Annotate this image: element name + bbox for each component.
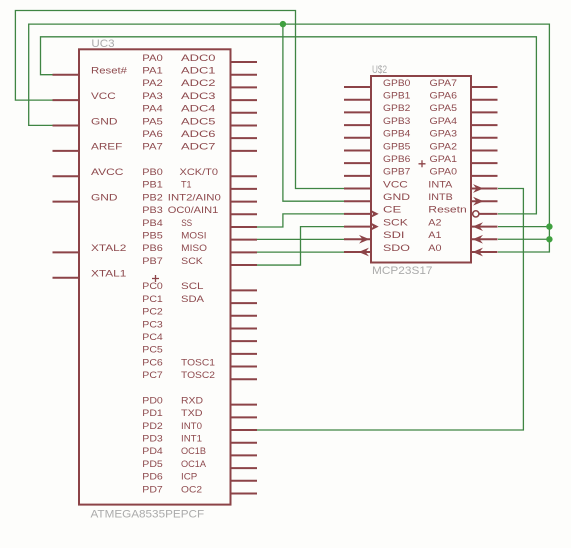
- svg-text:PD2: PD2: [142, 421, 163, 432]
- svg-text:INTB: INTB: [428, 192, 453, 203]
- svg-text:VCC: VCC: [383, 179, 408, 190]
- svg-text:SCK: SCK: [383, 217, 409, 228]
- svg-text:INT0: INT0: [181, 421, 202, 432]
- svg-text:GPA5: GPA5: [430, 103, 458, 114]
- svg-text:PA5: PA5: [142, 116, 163, 127]
- svg-text:PD7: PD7: [142, 484, 163, 495]
- svg-text:XTAL2: XTAL2: [91, 243, 126, 254]
- svg-text:GPB1: GPB1: [383, 90, 410, 101]
- svg-text:GPB6: GPB6: [383, 154, 410, 165]
- svg-text:PB4: PB4: [142, 218, 163, 229]
- svg-text:GPB3: GPB3: [383, 116, 410, 127]
- svg-text:GPA7: GPA7: [430, 78, 458, 89]
- svg-text:SDO: SDO: [383, 243, 410, 254]
- svg-text:PC3: PC3: [142, 319, 163, 330]
- svg-text:PC1: PC1: [142, 294, 163, 305]
- svg-text:AREF: AREF: [91, 142, 122, 153]
- svg-text:GPB4: GPB4: [383, 129, 411, 140]
- svg-text:PD3: PD3: [142, 434, 163, 445]
- svg-text:PC0: PC0: [142, 281, 163, 292]
- svg-text:PB3: PB3: [142, 205, 163, 216]
- svg-text:TXD: TXD: [181, 408, 203, 419]
- svg-text:GND: GND: [383, 192, 410, 203]
- svg-text:A0: A0: [428, 243, 441, 254]
- svg-text:PA2: PA2: [142, 78, 163, 89]
- svg-text:INT1: INT1: [181, 434, 202, 445]
- svg-text:TOSC1: TOSC1: [181, 357, 215, 368]
- svg-text:VCC: VCC: [91, 91, 116, 102]
- svg-text:T1: T1: [181, 180, 192, 191]
- svg-text:PB6: PB6: [142, 243, 163, 254]
- svg-text:RXD: RXD: [181, 395, 203, 406]
- svg-text:ICP: ICP: [181, 472, 197, 483]
- svg-text:PD1: PD1: [142, 408, 163, 419]
- svg-text:GPA0: GPA0: [430, 167, 458, 178]
- svg-text:OC1B: OC1B: [181, 446, 206, 457]
- svg-text:TOSC2: TOSC2: [181, 370, 215, 381]
- svg-text:ADC3: ADC3: [181, 91, 216, 102]
- svg-text:PA3: PA3: [142, 91, 163, 102]
- svg-text:MOSI: MOSI: [181, 230, 206, 241]
- svg-text:GPA6: GPA6: [430, 90, 458, 101]
- svg-text:ADC7: ADC7: [181, 142, 216, 153]
- svg-text:ADC6: ADC6: [181, 129, 216, 140]
- svg-text:PC5: PC5: [142, 345, 163, 356]
- svg-text:PB2: PB2: [142, 192, 163, 203]
- svg-text:CE: CE: [383, 205, 401, 216]
- svg-text:ATMEGA8535PEPCF: ATMEGA8535PEPCF: [91, 508, 205, 520]
- svg-text:GPA3: GPA3: [430, 129, 458, 140]
- svg-text:PB0: PB0: [142, 167, 163, 178]
- svg-text:PB7: PB7: [142, 256, 163, 267]
- svg-text:PC7: PC7: [142, 370, 163, 381]
- svg-text:ADC2: ADC2: [181, 78, 216, 89]
- svg-text:ADC5: ADC5: [181, 116, 216, 127]
- svg-text:GPB7: GPB7: [383, 167, 410, 178]
- svg-text:U$2: U$2: [372, 64, 387, 76]
- svg-text:ADC4: ADC4: [181, 104, 216, 115]
- svg-text:OC0/AIN1: OC0/AIN1: [168, 205, 219, 216]
- svg-text:MCP23S17: MCP23S17: [372, 265, 433, 277]
- svg-text:GPB2: GPB2: [383, 103, 410, 114]
- svg-text:PA1: PA1: [142, 65, 163, 76]
- svg-text:UC3: UC3: [91, 38, 114, 50]
- svg-text:ADC0: ADC0: [181, 53, 216, 64]
- svg-text:SDI: SDI: [383, 230, 405, 241]
- svg-text:PC2: PC2: [142, 307, 163, 318]
- svg-text:XCK/T0: XCK/T0: [180, 167, 219, 178]
- svg-text:ADC1: ADC1: [181, 65, 216, 76]
- svg-text:PC6: PC6: [142, 357, 163, 368]
- svg-text:GND: GND: [91, 192, 118, 203]
- svg-text:PB5: PB5: [142, 230, 163, 241]
- svg-text:PD6: PD6: [142, 472, 163, 483]
- svg-text:OC2: OC2: [181, 484, 202, 495]
- svg-text:Resetn: Resetn: [428, 205, 467, 216]
- svg-text:INT2/AIN0: INT2/AIN0: [168, 192, 221, 203]
- svg-text:PA0: PA0: [142, 53, 163, 64]
- svg-text:GPB5: GPB5: [383, 141, 410, 152]
- svg-text:PA7: PA7: [142, 142, 163, 153]
- svg-text:A1: A1: [428, 230, 441, 241]
- svg-text:GPB0: GPB0: [383, 78, 410, 89]
- svg-text:AVCC: AVCC: [91, 167, 124, 178]
- svg-text:A2: A2: [428, 217, 441, 228]
- svg-text:SS: SS: [181, 218, 192, 229]
- svg-text:SCL: SCL: [181, 281, 204, 292]
- svg-text:PD0: PD0: [142, 395, 163, 406]
- svg-text:SDA: SDA: [181, 294, 205, 305]
- svg-text:OC1A: OC1A: [181, 459, 207, 470]
- svg-text:PD4: PD4: [142, 446, 163, 457]
- svg-text:Reset#: Reset#: [91, 65, 128, 76]
- svg-text:GPA1: GPA1: [430, 154, 458, 165]
- svg-text:GPA4: GPA4: [430, 116, 458, 127]
- svg-text:INTA: INTA: [428, 179, 453, 190]
- svg-text:PD5: PD5: [142, 459, 163, 470]
- svg-text:PA4: PA4: [142, 104, 163, 115]
- svg-text:PA6: PA6: [142, 129, 163, 140]
- svg-text:GND: GND: [91, 116, 118, 127]
- svg-text:XTAL1: XTAL1: [91, 269, 126, 280]
- svg-text:SCK: SCK: [181, 256, 203, 267]
- svg-text:MISO: MISO: [181, 243, 207, 254]
- svg-text:PB1: PB1: [142, 180, 163, 191]
- svg-text:GPA2: GPA2: [430, 141, 458, 152]
- svg-text:PC4: PC4: [142, 332, 163, 343]
